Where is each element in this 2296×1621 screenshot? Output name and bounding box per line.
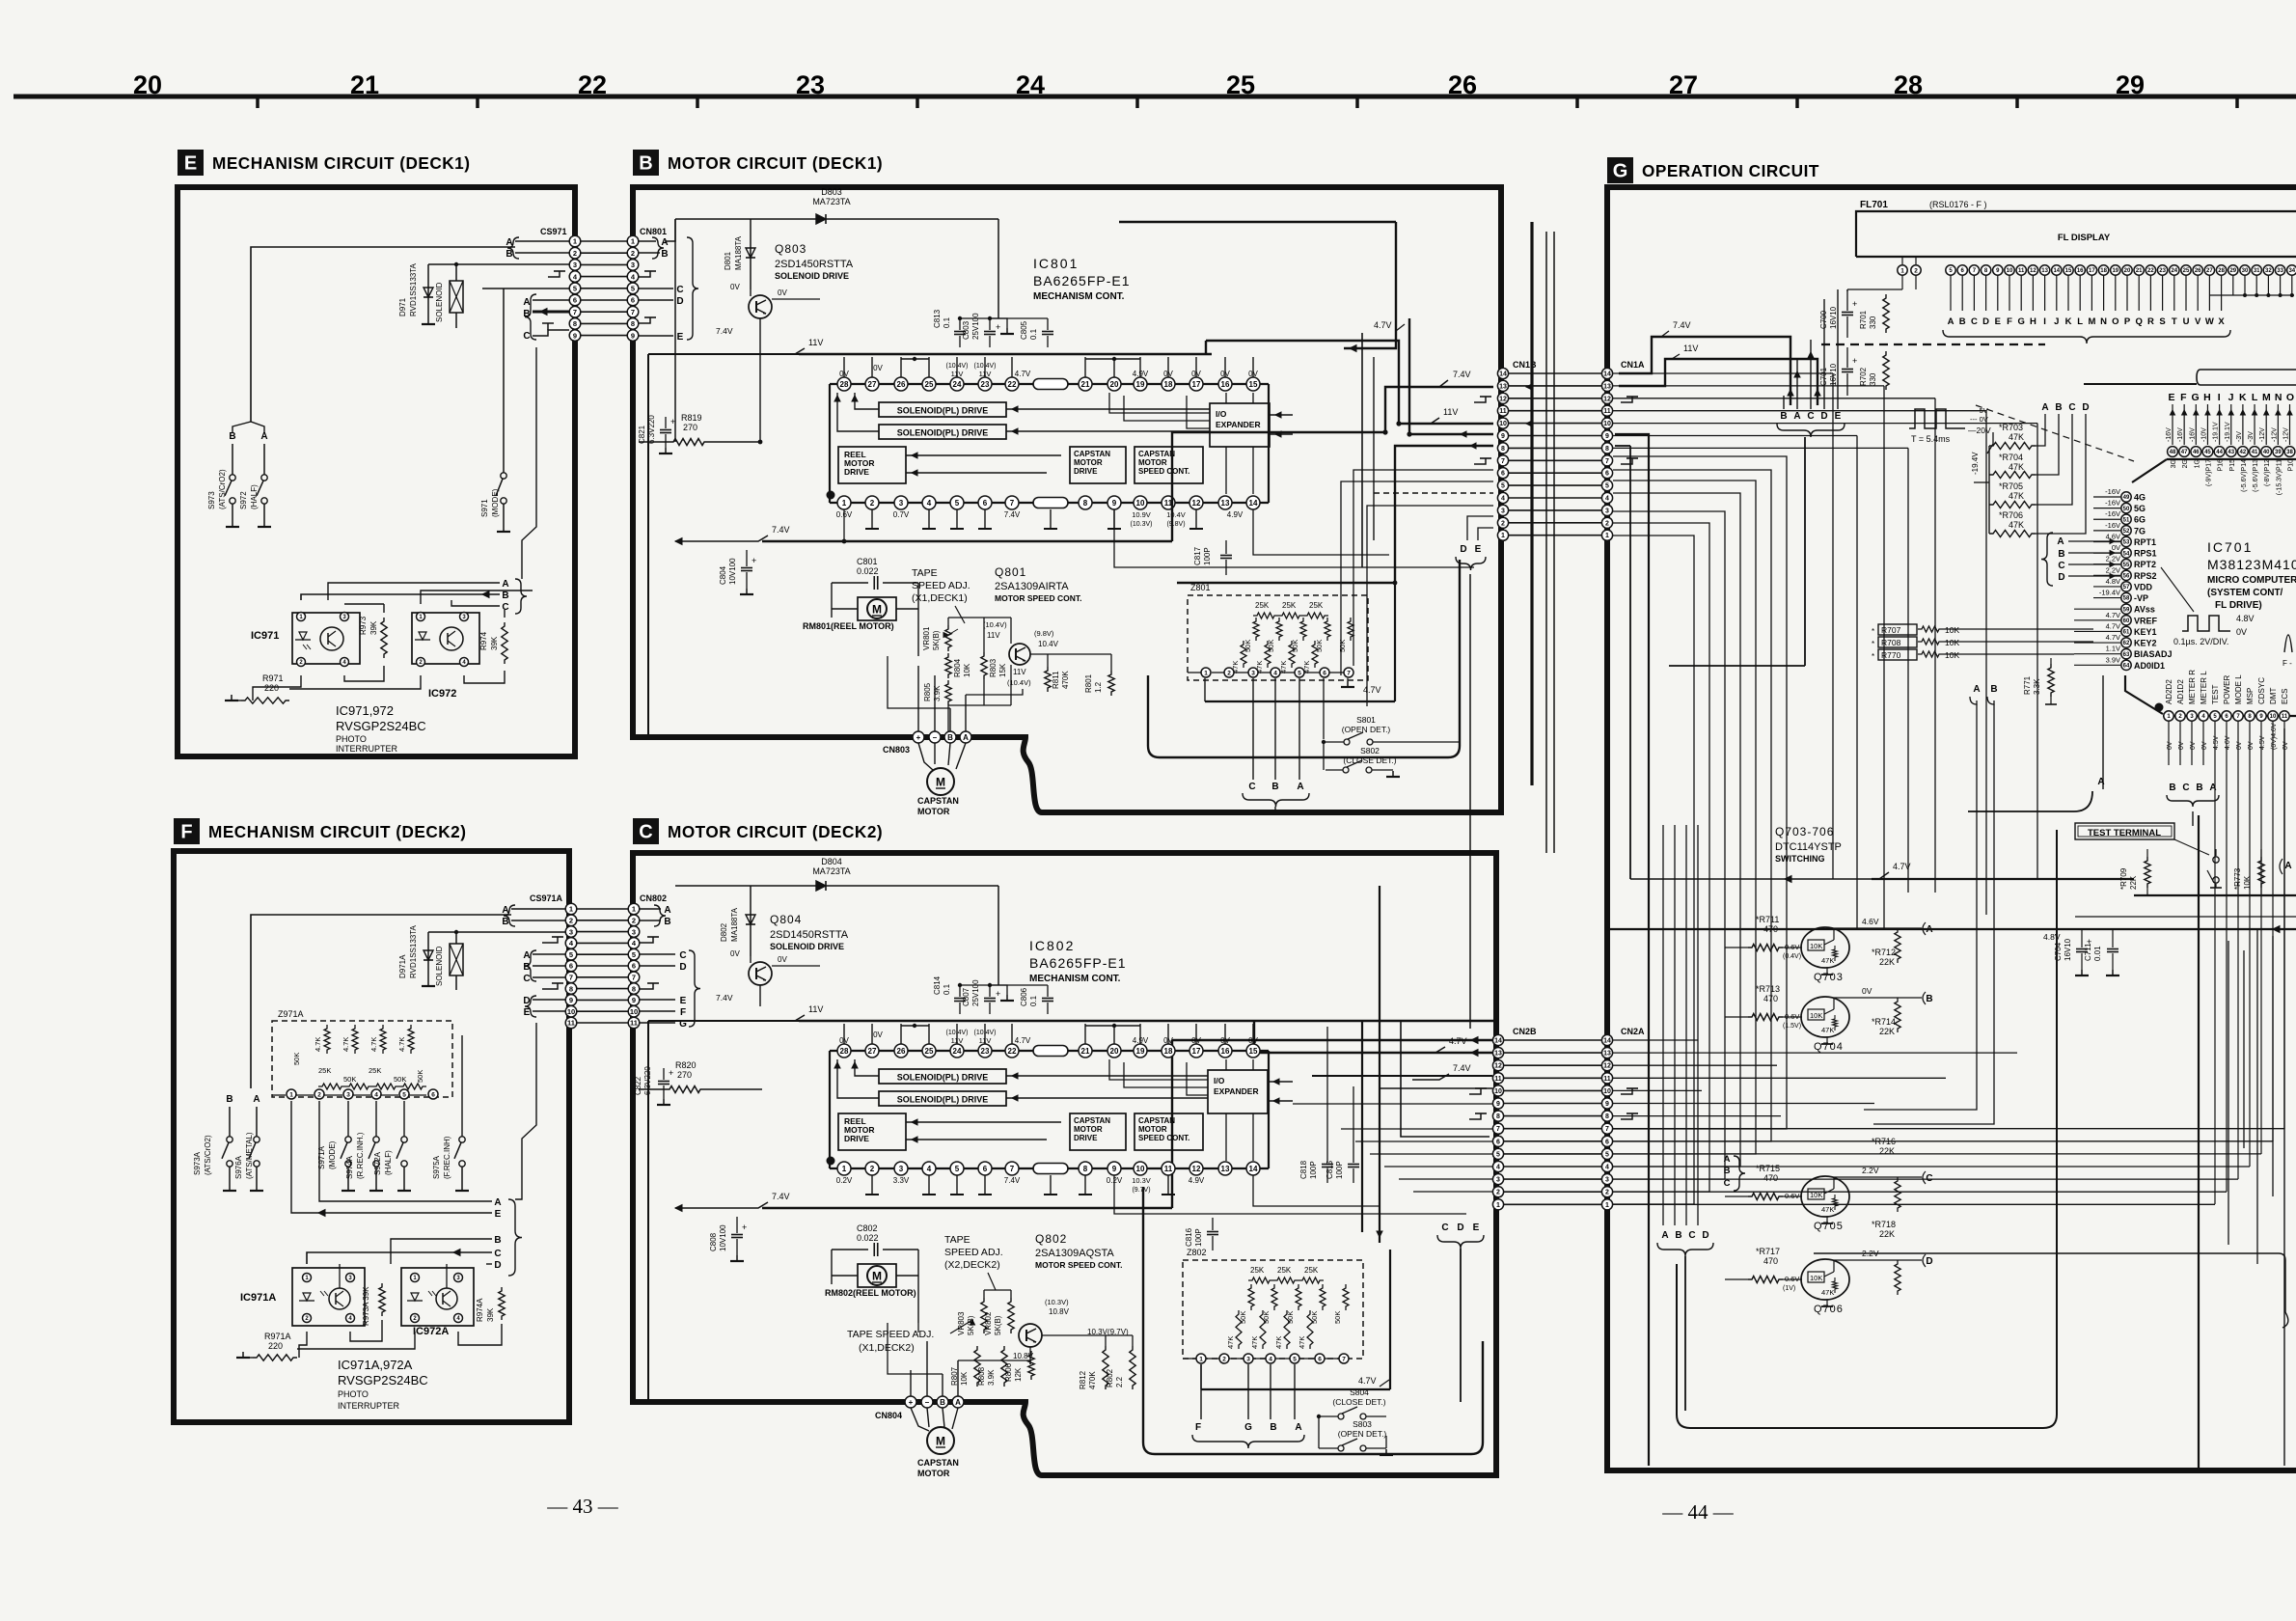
svg-text:METER L: METER L: [2200, 671, 2208, 704]
svg-text:0V: 0V: [2190, 741, 2197, 750]
wire CS971 pin5 long: [482, 288, 569, 289]
svg-text:SOLENOID(PL) DRIVE: SOLENOID(PL) DRIVE: [897, 1095, 989, 1105]
block frame E: [178, 187, 575, 756]
svg-text:5: 5: [1605, 483, 1609, 490]
svg-text:0V: 0V: [730, 283, 740, 291]
svg-text:57: 57: [2123, 585, 2130, 591]
hook at CN2B pin8: [1469, 1113, 1481, 1119]
svg-text:A: A: [963, 733, 969, 742]
svg-text:3: 3: [899, 499, 904, 508]
svg-text:1: 1: [1199, 1356, 1203, 1362]
svg-text:(MODE): (MODE): [491, 488, 500, 517]
svg-text:(9.8V): (9.8V): [1034, 629, 1054, 638]
svg-text:12: 12: [1494, 1063, 1502, 1070]
svg-text:5: 5: [632, 950, 636, 959]
svg-text:R974: R974: [479, 631, 488, 650]
svg-text:Q: Q: [2136, 316, 2143, 327]
svg-text:5: 5: [569, 950, 573, 959]
Z802 pins: [1196, 1354, 1206, 1363]
svg-text:14: 14: [2053, 268, 2060, 274]
svg-text:22K: 22K: [1879, 1229, 1895, 1239]
svg-text:7: 7: [1605, 458, 1609, 465]
svg-text:+: +: [996, 322, 1000, 332]
svg-text:6: 6: [1605, 1139, 1609, 1145]
svg-text:*R715: *R715: [1756, 1164, 1780, 1173]
motor RM801: [858, 597, 896, 620]
svg-text:10K: 10K: [2243, 875, 2252, 890]
svg-text:34: 34: [2288, 268, 2295, 274]
thin staircase wires CN1B left: [1353, 470, 1493, 666]
svg-text:33: 33: [2277, 268, 2283, 274]
svg-text:SWITCHING: SWITCHING: [1775, 854, 1825, 864]
svg-text:7: 7: [1347, 670, 1351, 676]
svg-text:S971: S971: [480, 499, 489, 517]
black dot node near pin1: [2155, 703, 2164, 712]
svg-text:(10.3V): (10.3V): [1131, 521, 1153, 528]
svg-text:P10: P10: [2288, 459, 2295, 472]
svg-text:IC971A,972A: IC971A,972A: [338, 1358, 413, 1372]
svg-text:16V10: 16V10: [1829, 306, 1838, 329]
svg-text:4.5V: 4.5V: [2259, 735, 2266, 750]
svg-text:P15: P15: [2229, 459, 2236, 472]
box CAPSTAN MOTOR DRIVE IC801: [1070, 447, 1126, 483]
svg-text:61: 61: [2123, 630, 2130, 636]
svg-text:25K: 25K: [1282, 601, 1297, 610]
svg-text:48: 48: [2170, 450, 2176, 455]
svg-text:60: 60: [2123, 618, 2130, 624]
IC701 pins 49-64 left column: [2121, 492, 2131, 502]
svg-text:0V: 0V: [2248, 741, 2255, 750]
svg-text:7.4V: 7.4V: [716, 993, 733, 1003]
svg-text:M: M: [2262, 392, 2271, 403]
svg-text:B: B: [1271, 782, 1278, 792]
svg-text:E: E: [495, 1209, 502, 1220]
svg-text:2: 2: [631, 249, 635, 258]
svg-text:D971: D971: [398, 297, 407, 316]
bracket A B C left of CS971A pins 5-7: [525, 950, 536, 981]
svg-text:23: 23: [981, 380, 990, 389]
svg-text:S972A: S972A: [373, 1151, 382, 1175]
svg-text:8: 8: [569, 984, 573, 993]
svg-text:G: G: [1613, 161, 1628, 182]
svg-text:1: 1: [1496, 1202, 1500, 1209]
svg-text:CS971A: CS971A: [530, 893, 563, 903]
svg-text:OPERATION CIRCUIT: OPERATION CIRCUIT: [1642, 161, 1819, 180]
svg-text:Q804: Q804: [770, 913, 802, 926]
svg-text:BA6265FP-E1: BA6265FP-E1: [1029, 955, 1127, 971]
svg-text:39K: 39K: [369, 620, 378, 635]
svg-text:*R705: *R705: [1999, 481, 2023, 491]
svg-text:25: 25: [2183, 268, 2190, 274]
svg-text:24: 24: [2171, 268, 2177, 274]
svg-text:F -: F -: [2282, 659, 2292, 668]
svg-text:25K: 25K: [1304, 1266, 1319, 1275]
svg-text:C: C: [1971, 316, 1978, 327]
svg-text:2: 2: [569, 917, 573, 925]
svg-text:10.8V: 10.8V: [1049, 1307, 1070, 1316]
svg-text:50K: 50K: [416, 1070, 424, 1083]
svg-text:(10.4V): (10.4V): [983, 620, 1007, 629]
svg-text:A: A: [955, 1398, 961, 1407]
svg-text:MECHANISM CONT.: MECHANISM CONT.: [1033, 291, 1125, 302]
heavy wire 4.7V into B: [1344, 222, 1396, 348]
svg-text:SPEED ADJ.: SPEED ADJ.: [944, 1247, 1003, 1258]
svg-text:10.9V: 10.9V: [1132, 510, 1151, 519]
svg-text:E: E: [1995, 316, 2001, 327]
svg-text:25V100: 25V100: [971, 313, 980, 340]
svg-text:VR803: VR803: [957, 1311, 966, 1335]
svg-text:17: 17: [2089, 268, 2095, 274]
C818 C815 riser wires: [1326, 1027, 1328, 1150]
svg-text:2SA1309AIRTA: 2SA1309AIRTA: [995, 581, 1069, 592]
svg-text:5: 5: [1605, 1151, 1609, 1158]
TEST TERMINAL box: [2075, 823, 2174, 839]
svg-text:0V: 0V: [2178, 741, 2185, 750]
svg-text:CAPSTAN: CAPSTAN: [917, 1458, 959, 1468]
block frame C: [633, 853, 1496, 1475]
svg-text:(ATS/CrO2): (ATS/CrO2): [218, 469, 227, 509]
svg-text:A: A: [1297, 782, 1303, 792]
svg-text:-19.4V: -19.4V: [1971, 452, 1980, 475]
svg-text:FL DISPLAY: FL DISPLAY: [2058, 233, 2111, 243]
wire CS971 pin3 to solenoid: [428, 263, 569, 265]
svg-text:4.9V: 4.9V: [1189, 1176, 1205, 1185]
svg-text:1: 1: [569, 905, 573, 914]
svg-text:J: J: [2228, 392, 2234, 403]
svg-text:R808: R808: [977, 1366, 986, 1386]
svg-text:MSP: MSP: [2246, 688, 2255, 704]
bus elbow right edge above IC701: [2200, 369, 2296, 371]
svg-text:3: 3: [569, 927, 573, 936]
svg-text:-16V: -16V: [2105, 509, 2120, 518]
svg-text:16V10: 16V10: [2064, 938, 2072, 961]
svg-text:C813: C813: [933, 309, 942, 328]
svg-text:40: 40: [2263, 450, 2270, 455]
boxes SOLENOID(PL) DRIVE IC802: [879, 1069, 1006, 1084]
svg-text:5: 5: [402, 1091, 406, 1098]
svg-text:*R704: *R704: [1999, 453, 2023, 462]
svg-text:6: 6: [1605, 471, 1609, 478]
box CAPSTAN MOTOR DRIVE IC802: [1070, 1113, 1126, 1150]
svg-text:D802: D802: [720, 922, 728, 942]
svg-text:10.4V: 10.4V: [1038, 640, 1059, 648]
svg-text:4.6V: 4.6V: [2225, 735, 2231, 750]
svg-text:220: 220: [268, 1341, 283, 1351]
svg-text:R804: R804: [953, 658, 962, 677]
svg-text:4.7V: 4.7V: [1015, 1036, 1031, 1045]
svg-text:10: 10: [1494, 1088, 1502, 1095]
wires CN1B to CN1A: [1509, 372, 1601, 374]
top jumpers IC802: [901, 1025, 929, 1027]
svg-text:C818: C818: [1299, 1160, 1308, 1179]
svg-text:21: 21: [350, 70, 379, 99]
svg-text:(X1,DECK1): (X1,DECK1): [912, 592, 968, 604]
svg-text:24: 24: [953, 380, 962, 389]
svg-text:CN801: CN801: [640, 227, 667, 236]
svg-text:20: 20: [1110, 380, 1119, 389]
svg-text:13: 13: [1221, 1165, 1230, 1173]
svg-text:A: A: [2284, 861, 2291, 871]
svg-text:C817: C817: [1193, 546, 1202, 565]
svg-text:7.4V: 7.4V: [772, 525, 790, 535]
svg-text:IC701: IC701: [2207, 539, 2253, 555]
wire loop B box bottom right: [1148, 560, 1460, 757]
svg-text:H: H: [2030, 316, 2036, 327]
svg-text:4: 4: [1273, 670, 1277, 676]
svg-text:14: 14: [1499, 371, 1507, 378]
svg-text:B: B: [1780, 411, 1787, 422]
svg-text:*R706: *R706: [1999, 510, 2023, 520]
svg-text:MODE L: MODE L: [2234, 674, 2243, 704]
svg-text:0.022: 0.022: [857, 1233, 879, 1243]
svg-text:0.1µs. 2V/DIV.: 0.1µs. 2V/DIV.: [2173, 637, 2228, 646]
svg-text:D: D: [2082, 402, 2089, 413]
hook at CN801 pin8: [639, 317, 650, 323]
svg-text:X: X: [2218, 316, 2225, 327]
svg-text:50: 50: [2123, 507, 2130, 512]
svg-text:6: 6: [631, 296, 635, 305]
hook at CN2A pin10: [1621, 1088, 1632, 1094]
svg-text:+: +: [909, 1398, 914, 1407]
svg-text:B: B: [1270, 1422, 1276, 1433]
svg-text:B: B: [506, 249, 512, 260]
svg-text:AD0ID1: AD0ID1: [2134, 661, 2165, 671]
svg-text:2: 2: [1227, 670, 1231, 676]
svg-text:14: 14: [1249, 1165, 1258, 1173]
svg-text:CDSYC: CDSYC: [2257, 677, 2266, 704]
svg-text:C: C: [2182, 783, 2189, 793]
svg-text:21: 21: [2136, 268, 2143, 274]
svg-text:(9.8V): (9.8V): [1166, 521, 1185, 528]
svg-text:TAPE: TAPE: [944, 1234, 970, 1246]
verticals down to transistor area: [1725, 947, 1748, 948]
svg-text:330: 330: [1869, 316, 1877, 329]
svg-text:9: 9: [573, 331, 577, 340]
svg-text:4.8V: 4.8V: [2043, 932, 2061, 942]
svg-text:B: B: [494, 1235, 501, 1246]
svg-text:+: +: [916, 733, 921, 742]
svg-text:20: 20: [1110, 1047, 1119, 1056]
svg-text:B: B: [1959, 316, 1966, 327]
svg-text:1: 1: [1605, 533, 1609, 539]
svg-text:C805: C805: [1020, 320, 1028, 340]
svg-text:0V: 0V: [730, 949, 740, 958]
svg-text:5: 5: [573, 285, 577, 293]
svg-text:R812: R812: [1079, 1370, 1087, 1389]
svg-text:PHOTO: PHOTO: [338, 1389, 369, 1399]
svg-text:7: 7: [1501, 458, 1505, 465]
svg-text:2: 2: [1605, 1190, 1609, 1196]
svg-text:27: 27: [868, 380, 877, 389]
svg-text:FL701: FL701: [1860, 200, 1888, 210]
wires under IC801 to Q801 section: [843, 509, 845, 541]
svg-text:6: 6: [573, 296, 577, 305]
svg-text:29: 29: [2116, 70, 2145, 99]
svg-text:20: 20: [133, 70, 162, 99]
svg-text:A: A: [661, 237, 668, 248]
svg-text:2.2V: 2.2V: [2106, 565, 2120, 574]
svg-text:22: 22: [1008, 1047, 1017, 1056]
svg-text:59: 59: [2123, 607, 2130, 613]
verticals B box right: [1361, 333, 1363, 567]
svg-text:8: 8: [631, 319, 635, 328]
svg-text:15: 15: [2065, 268, 2072, 274]
svg-text:(CLOSE DET.): (CLOSE DET.): [1332, 1397, 1385, 1407]
svg-text:0.1: 0.1: [1029, 328, 1038, 340]
svg-text:26: 26: [1448, 70, 1477, 99]
hook at CN1A pin12: [1621, 397, 1632, 402]
svg-text:R974A: R974A: [476, 1298, 484, 1322]
svg-text:-16V: -16V: [2189, 427, 2196, 442]
svg-text:100P: 100P: [1203, 547, 1212, 565]
wires I/O expander IC802 to pins: [1109, 1059, 1208, 1080]
svg-text:F: F: [1195, 1422, 1201, 1433]
svg-text:4: 4: [1269, 1356, 1272, 1362]
svg-text:42: 42: [2240, 450, 2247, 455]
svg-text:62: 62: [2123, 641, 2130, 646]
IC802 chip body and pins: [830, 1050, 1269, 1052]
svg-text:4.7K: 4.7K: [369, 1037, 378, 1052]
FL right pin elbow row: [2209, 294, 2294, 296]
svg-text:11: 11: [1494, 1076, 1502, 1083]
svg-text:15K: 15K: [998, 663, 1007, 677]
svg-text:(10.3V): (10.3V): [1045, 1298, 1069, 1306]
svg-text:IC972A: IC972A: [413, 1326, 449, 1337]
svg-text:25K: 25K: [318, 1066, 331, 1075]
svg-text:*R713: *R713: [1756, 984, 1780, 994]
svg-text:INTERRUPTER: INTERRUPTER: [336, 744, 398, 754]
svg-text:B: B: [940, 1398, 945, 1407]
svg-text:R802: R802: [1106, 1368, 1114, 1387]
svg-text:IC801: IC801: [1033, 256, 1079, 271]
svg-text:0.1: 0.1: [943, 316, 951, 328]
svg-text:DRIVE: DRIVE: [844, 467, 869, 477]
heavy wire 11V staircase to CN1B pin10: [1206, 341, 1493, 424]
bracket A B left of CS971A: [504, 905, 515, 926]
svg-text:12: 12: [1603, 396, 1611, 402]
svg-text:D803: D803: [821, 187, 842, 197]
heavy vertical bus right of CN1B: [1530, 222, 1533, 785]
svg-text:11: 11: [1603, 1076, 1611, 1083]
svg-text:3: 3: [632, 927, 636, 936]
svg-text:SPEED ADJ.: SPEED ADJ.: [912, 580, 970, 591]
svg-text:39K: 39K: [490, 636, 499, 650]
hook at CN1A pin7: [1621, 458, 1632, 464]
svg-text:R: R: [2147, 316, 2154, 327]
svg-text:MOTOR: MOTOR: [1074, 1125, 1103, 1134]
svg-text:5: 5: [1293, 1356, 1297, 1362]
svg-text:7.4V: 7.4V: [1004, 1176, 1021, 1185]
svg-text:R973: R973: [359, 616, 368, 635]
svg-text:23: 23: [2159, 268, 2166, 274]
svg-text:MOTOR: MOTOR: [917, 1469, 950, 1478]
svg-text:28: 28: [840, 380, 849, 389]
svg-text:12K: 12K: [1014, 1367, 1023, 1382]
svg-text:B: B: [2055, 402, 2062, 413]
svg-text:SPEED CONT.: SPEED CONT.: [1138, 467, 1189, 476]
wires CS971 to CN801: [581, 240, 627, 242]
svg-text:E: E: [1473, 1223, 1480, 1233]
svg-text:*: *: [1872, 627, 1874, 636]
svg-text:Q704: Q704: [1814, 1041, 1844, 1053]
svg-text:-16V: -16V: [2177, 427, 2184, 442]
svg-text:TAPE: TAPE: [912, 567, 938, 579]
svg-text:-16V: -16V: [2166, 427, 2173, 442]
wires I/O expander to pins: [1109, 393, 1210, 413]
svg-text:56: 56: [2123, 574, 2130, 580]
svg-text:47K: 47K: [2009, 432, 2024, 442]
wires F box photointerrupter: [299, 1332, 307, 1358]
svg-text:CAPSTAN: CAPSTAN: [1138, 450, 1175, 458]
svg-text:I: I: [2218, 392, 2221, 403]
wires R707-770 to IC701: [1943, 628, 2093, 630]
svg-text:C814: C814: [933, 975, 942, 995]
svg-text:12: 12: [1192, 499, 1201, 508]
svg-text:22: 22: [578, 70, 607, 99]
svg-text:(HALF): (HALF): [384, 1150, 393, 1175]
svg-text:15: 15: [1249, 1047, 1258, 1056]
heavy horizontal top B: [1119, 221, 1396, 223]
svg-text:27: 27: [868, 1047, 877, 1056]
gap verticals between B and G: [1545, 232, 1547, 853]
svg-text:F: F: [180, 822, 192, 843]
svg-text:SOLENOID: SOLENOID: [435, 946, 444, 986]
svg-text:-16V: -16V: [2105, 521, 2120, 530]
svg-text:3.3V: 3.3V: [893, 1176, 910, 1185]
wires under IC801 right: [1114, 509, 1474, 567]
svg-text:(-5.6V)P14: (-5.6V)P14: [2241, 459, 2248, 492]
svg-text:B: B: [523, 962, 530, 973]
section header C: [633, 818, 659, 844]
svg-text:27: 27: [1669, 70, 1698, 99]
svg-text:B: B: [1675, 1230, 1681, 1241]
svg-text:I: I: [2043, 316, 2046, 327]
svg-text:CN802: CN802: [640, 893, 667, 903]
svg-text:S973: S973: [207, 491, 216, 509]
svg-text:9: 9: [1496, 1101, 1500, 1108]
svg-text:R819: R819: [681, 413, 702, 423]
svg-text:39: 39: [2275, 450, 2282, 455]
junction dots CN1B area: [1382, 429, 1387, 434]
svg-text:6: 6: [1501, 471, 1505, 478]
svg-text:(1.5V): (1.5V): [1783, 1023, 1801, 1030]
svg-text:A: A: [523, 297, 530, 308]
svg-text:C: C: [523, 331, 530, 342]
box CAPSTAN MOTOR SPEED CONT IC802: [1134, 1113, 1203, 1150]
svg-text:(0.4V): (0.4V): [1783, 953, 1801, 960]
svg-text:5: 5: [955, 499, 960, 508]
svg-text:B: B: [664, 917, 670, 927]
svg-text:C711: C711: [2084, 943, 2092, 961]
svg-text:(MODE): (MODE): [328, 1140, 337, 1169]
svg-text:2: 2: [317, 1091, 321, 1098]
svg-text:47K: 47K: [1226, 1336, 1235, 1349]
svg-text:14: 14: [1249, 499, 1258, 508]
svg-text:1: 1: [842, 499, 847, 508]
svg-text:*R709: *R709: [2119, 867, 2128, 890]
svg-text:11: 11: [2282, 714, 2288, 720]
svg-text:KEY2: KEY2: [2134, 639, 2157, 648]
svg-text:IC802: IC802: [1029, 938, 1075, 953]
svg-text:RPS2: RPS2: [2134, 571, 2157, 581]
motor RM802: [858, 1264, 896, 1287]
vertical bundle G mid CN1A to CN2A: [1613, 536, 1694, 1204]
svg-text:7G: 7G: [2134, 526, 2146, 536]
svg-text:S972: S972: [239, 491, 248, 509]
svg-text:3: 3: [1496, 1177, 1500, 1184]
Z802 pin1 heavy wire: [1200, 1364, 1202, 1389]
ruler line: [14, 95, 2296, 99]
